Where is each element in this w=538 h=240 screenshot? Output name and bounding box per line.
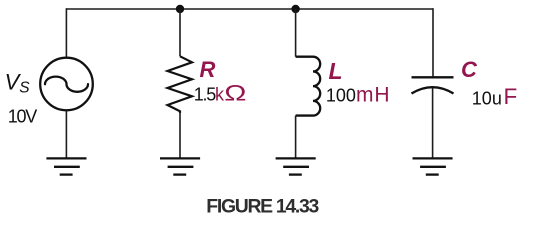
ground (resistor) xyxy=(160,158,200,174)
wire source top lead xyxy=(65,8,67,58)
svg-text:10V: 10V xyxy=(8,107,38,127)
svg-text:100: 100 xyxy=(326,86,356,106)
ground (capacitor) xyxy=(413,158,453,174)
wire capacitor top lead xyxy=(432,8,434,76)
node junction at resistor branch xyxy=(176,5,184,13)
wire source bottom lead xyxy=(65,110,67,157)
wire inductor top lead xyxy=(295,9,297,57)
wire capacitor bottom lead xyxy=(432,88,434,158)
capacitor C (curved plate style) xyxy=(412,77,454,93)
svg-text:R: R xyxy=(200,57,216,82)
svg-text:10u: 10u xyxy=(472,89,502,109)
inductor L (coil) xyxy=(296,57,321,116)
svg-text:F: F xyxy=(504,84,518,109)
source VS (AC sine symbol) xyxy=(40,58,93,111)
svg-text:L: L xyxy=(329,58,343,84)
node junction at inductor branch xyxy=(291,5,299,13)
svg-text:FIGURE 14.33: FIGURE 14.33 xyxy=(206,196,319,218)
ground (inductor) xyxy=(276,158,316,174)
wire top bus xyxy=(66,8,433,10)
svg-text:mH: mH xyxy=(356,84,390,107)
wire inductor bottom lead xyxy=(295,116,297,158)
svg-text:Ω: Ω xyxy=(224,80,246,105)
wire resistor bottom lead xyxy=(179,112,181,158)
svg-text:1.5: 1.5 xyxy=(194,85,217,105)
resistor R xyxy=(168,56,193,113)
svg-text:VS: VS xyxy=(5,69,31,96)
ground (source) xyxy=(46,158,86,174)
svg-text:C: C xyxy=(461,57,478,82)
wire resistor top lead xyxy=(179,9,181,56)
